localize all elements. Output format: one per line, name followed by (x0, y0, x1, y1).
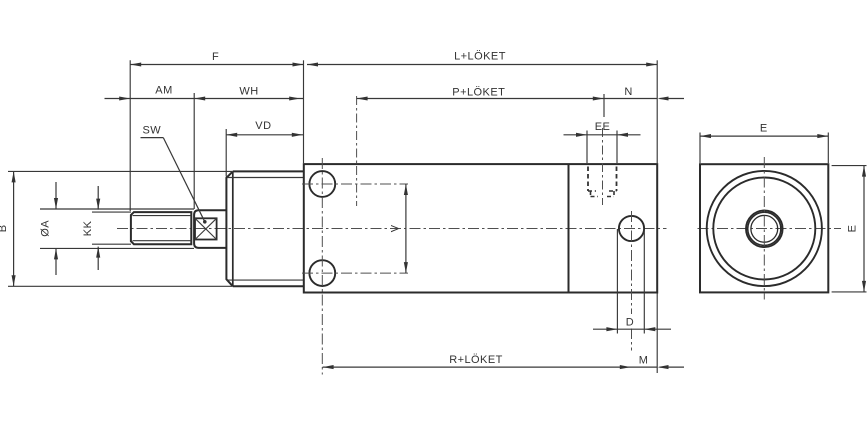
svg-text:VD: VD (255, 120, 271, 132)
svg-text:AM: AM (155, 85, 172, 97)
arrow EE left outside (576, 133, 587, 137)
svg-text:B: B (0, 224, 9, 232)
arrow WH right (289, 96, 300, 100)
extension line rod end (129, 60, 131, 211)
front cap chamfer tangent bottom line (227, 279, 304, 281)
svg-text:D: D (626, 317, 634, 329)
dimension EE line (564, 134, 641, 136)
arrow F right (293, 62, 304, 66)
arrow V top (404, 184, 408, 195)
arrow P right (593, 96, 604, 100)
KK extension bottom (92, 243, 131, 245)
rear port circle (619, 216, 644, 241)
svg-text:R+LÖKET: R+LÖKET (449, 354, 503, 366)
end view square (700, 164, 828, 292)
arrow OA bottom (54, 248, 58, 259)
B extension top (8, 170, 233, 172)
arrow L left (307, 62, 318, 66)
front port centerline (356, 96, 358, 206)
B extension bottom (8, 285, 233, 287)
rear cap separation line (568, 164, 570, 292)
piston rod thread outline (131, 212, 191, 244)
end view outer circle (707, 171, 822, 286)
dimension AM WH P N line (105, 98, 685, 100)
arrow E top right (817, 134, 828, 138)
E right extension bottom (832, 291, 867, 293)
dimension D line (593, 328, 671, 330)
extension line EE left (586, 131, 588, 164)
wrench flats X diagonal 2 (195, 218, 217, 239)
end view thread ring outer (746, 211, 783, 248)
arrow KK bottom (96, 247, 100, 258)
extension line EE right (616, 131, 618, 164)
dimension V line (405, 184, 407, 273)
svg-text:M: M (639, 354, 649, 366)
rear port vertical centerline (631, 211, 633, 351)
arrow E right top (862, 166, 866, 177)
svg-text:WH: WH (239, 86, 258, 98)
arrow R right (620, 365, 631, 369)
extension line flange face (303, 60, 305, 163)
arrow M right outside (658, 365, 669, 369)
svg-text:KK: KK (82, 220, 94, 236)
arrow D left outside (606, 327, 617, 331)
front cap chamfer tangent top line (227, 177, 304, 179)
extension line P right (603, 94, 605, 117)
dimension E top line (700, 135, 828, 137)
mounting hole top (309, 171, 335, 197)
svg-text:E: E (760, 123, 768, 135)
mounting hole bottom horizontal centerline (302, 272, 408, 274)
svg-text:SW: SW (142, 125, 161, 137)
dimension KK arrows (97, 186, 99, 270)
svg-text:EE: EE (595, 121, 611, 133)
mounting holes vertical centerline (321, 158, 323, 375)
OA extension bottom (40, 247, 194, 249)
hidden port EE left wall (587, 167, 589, 192)
extension line E top right (827, 133, 829, 164)
arrow OA top (54, 198, 58, 209)
end view horizontal centerline (698, 228, 842, 230)
svg-text:E: E (847, 225, 859, 233)
D extension right (643, 229, 645, 334)
dimension VD line (226, 134, 303, 136)
svg-text:N: N (624, 86, 632, 98)
SW leader line (163, 138, 205, 222)
SW leader dot (203, 220, 207, 224)
SW label underline (141, 137, 164, 139)
dimension R+LOKET M line (323, 366, 684, 368)
svg-text:F: F (212, 51, 219, 63)
arrow E right bottom (862, 281, 866, 292)
mounting hole bottom (309, 260, 335, 286)
label D backing (624, 314, 637, 329)
dimension E right line (863, 166, 865, 292)
arrow KK top (96, 199, 100, 210)
dimension F line (130, 64, 303, 66)
extension line E top left (699, 133, 701, 164)
cylinder tube and flange body (304, 164, 657, 292)
dimension OA arrows (55, 182, 57, 275)
svg-text:P+LÖKET: P+LÖKET (452, 87, 505, 99)
end view vertical centerline (763, 157, 765, 300)
port EE centerline (602, 128, 604, 205)
E right extension top (832, 165, 867, 167)
svg-text:L+LÖKET: L+LÖKET (454, 51, 506, 63)
extension line collar face (193, 93, 195, 209)
hidden port EE right wall (616, 167, 618, 192)
end view thread ring inner (751, 215, 778, 242)
arrow F left (130, 62, 141, 66)
arrow VD left (226, 133, 237, 137)
wrench flats X diagonal 1 (195, 218, 217, 239)
front cap chamfer tangent vertical (232, 171, 234, 286)
end view inner large circle (713, 178, 815, 280)
arrow P left (357, 96, 368, 100)
arrow L right (646, 62, 657, 66)
OA extension top (40, 208, 194, 210)
D extension left (616, 229, 618, 334)
thread root line top (133, 215, 192, 217)
front cap (gland) outline (226, 171, 303, 286)
rod collar (wrench flat section) (194, 210, 226, 248)
svg-text:V: V (389, 224, 401, 232)
arrow B top (12, 171, 16, 182)
arrow E top left (700, 134, 711, 138)
end view thread ring middle (748, 212, 781, 245)
arrow AM left outside (119, 96, 130, 100)
arrow V bottom (404, 262, 408, 273)
extension line cap face (225, 129, 227, 177)
svg-text:ØA: ØA (39, 220, 51, 237)
arrow VD right (292, 133, 303, 137)
extension line tube end top (656, 60, 658, 163)
extension line tube end bottom (656, 294, 658, 374)
dimension B line (13, 171, 15, 286)
arrow EE right outside (617, 133, 628, 137)
arrow WH left (194, 96, 205, 100)
arrow D right outside (644, 327, 655, 331)
arrow R left (323, 365, 334, 369)
thread root line bottom (133, 240, 192, 242)
arrow N right outside (658, 96, 669, 100)
main centerline (117, 228, 667, 230)
mounting hole top horizontal centerline (302, 183, 408, 185)
dimension L+LOKET line (307, 64, 657, 66)
KK extension top (92, 211, 131, 213)
wrench flats box SW (195, 218, 217, 239)
hidden port EE step (588, 191, 617, 197)
arrow B bottom (12, 275, 16, 286)
